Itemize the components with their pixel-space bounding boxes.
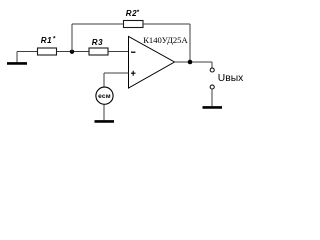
op-amp U1 [129, 37, 175, 89]
wire: R2 to right riser [143, 23, 190, 25]
svg-text:Uвых: Uвых [218, 73, 244, 84]
wire: feedback riser from node A [71, 24, 73, 52]
svg-text:К140УД25А: К140УД25А [143, 35, 188, 45]
wire: drop to upper output terminal [211, 62, 213, 68]
resistor R1 [38, 48, 57, 55]
wire: top feedback run to R2 [72, 23, 124, 25]
terminal (upper output) [210, 68, 214, 72]
wire: R3 to op-amp inverting input [108, 51, 129, 53]
pin - (inverting input mark) [131, 51, 135, 53]
svg-text:R1: R1 [41, 36, 52, 45]
svg-text:R3: R3 [92, 38, 103, 47]
wire: riser down to source [103, 73, 105, 87]
svg-text:*: * [53, 35, 56, 42]
pin + (non-inverting input mark) [131, 71, 136, 76]
wire: ground riser [16, 52, 18, 63]
wire: op-amp output [175, 61, 213, 63]
resistor R2 [124, 21, 144, 28]
node B junction dot on output [188, 60, 193, 65]
wire: right riser down to output [189, 24, 191, 62]
ground (right) [203, 106, 223, 109]
svg-text:R2: R2 [126, 9, 137, 18]
wire: ground to R1 left [17, 51, 38, 53]
ground (source) [95, 120, 115, 123]
wire: lower terminal to ground [211, 89, 213, 106]
source Ecm (offset EMF source) [96, 87, 113, 104]
wire: source to ground [103, 104, 105, 120]
node A junction dot [70, 50, 74, 54]
wire: op-amp + input [104, 72, 129, 74]
ground (left) [7, 62, 27, 65]
svg-text:есм: есм [98, 93, 111, 100]
resistor R3 [89, 48, 108, 55]
svg-text:*: * [137, 9, 140, 16]
wire: R1 to R3 [57, 51, 90, 53]
terminal (lower output) [210, 85, 214, 89]
